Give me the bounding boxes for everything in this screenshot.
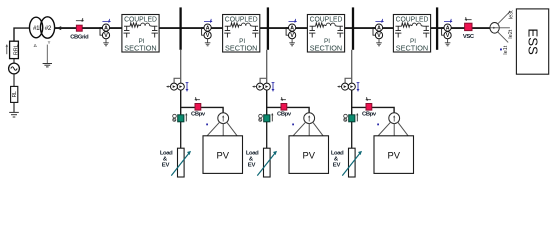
wire CBGrid to meter M1 xyxy=(82,27,122,29)
transformer T1 winding #1 (delta) xyxy=(29,17,42,48)
svg-text:CBpv: CBpv xyxy=(191,111,206,117)
ammeter feeder 2 xyxy=(263,83,270,90)
wire source riser xyxy=(14,28,30,41)
wire ESS phase 2 xyxy=(499,27,510,29)
svg-text:SECTION: SECTION xyxy=(310,46,342,53)
signal dot 2 xyxy=(292,124,294,126)
bus bar B4 xyxy=(436,7,438,49)
source impedance RRL xyxy=(10,41,20,58)
svg-text:V: V xyxy=(377,33,381,39)
svg-text:PI: PI xyxy=(324,38,330,45)
svg-text:COUPLED: COUPLED xyxy=(310,14,343,23)
svg-text:V: V xyxy=(206,33,210,39)
svg-text:ESS: ESS xyxy=(526,28,541,55)
wire to Load & EV 1 xyxy=(180,122,182,148)
svg-text:CBpv: CBpv xyxy=(362,111,377,117)
multimeter M1 (ammeter A over voltmeter V) xyxy=(100,24,110,46)
current flow arrow at M4 xyxy=(375,19,383,23)
multimeter M2 (ammeter A over voltmeter V) xyxy=(202,24,212,46)
variable load box Load & EV 2 xyxy=(264,148,271,177)
variable-load arrow 2 xyxy=(257,151,277,176)
svg-text:Y: Y xyxy=(48,40,51,45)
wire source to RL xyxy=(13,74,15,87)
breaker CBpv3 xyxy=(362,104,377,118)
ammeter feeder 1 xyxy=(177,83,184,90)
wire meter loop feeder 3 xyxy=(345,78,352,83)
svg-text:SECTION: SECTION xyxy=(396,46,428,53)
signal dot 1 xyxy=(206,124,208,126)
svg-text:Δ: Δ xyxy=(34,43,37,48)
wire meter loop feeder 1 xyxy=(174,78,181,83)
ground source xyxy=(9,112,19,117)
multimeter M5 (ammeter A over voltmeter V) xyxy=(442,24,452,46)
transmission line block TL1: COUPLED PI SECTION xyxy=(122,14,159,52)
breaker CBGrid xyxy=(70,25,89,40)
svg-text:A: A xyxy=(446,25,450,31)
svg-text:COUPLED: COUPLED xyxy=(225,14,258,23)
voltmeter feeder 2 xyxy=(257,83,264,90)
label Load & EV 1 xyxy=(160,151,173,169)
multimeter M3 (ammeter A over voltmeter V) xyxy=(286,24,296,46)
current arrow at CBpv3 xyxy=(366,97,371,101)
bus bar B2 xyxy=(267,7,269,49)
wire transformer neutral to ground xyxy=(46,45,48,64)
svg-text:SECTION: SECTION xyxy=(124,46,156,53)
current flow arrow at M5 xyxy=(444,19,452,23)
power flow arrowhead toward transformer xyxy=(56,26,61,30)
wire PV branch 3 xyxy=(352,107,394,113)
transformer T1 winding #2 (wye) xyxy=(40,17,54,45)
wire PI3 to PI4 xyxy=(345,27,394,29)
svg-text:A: A xyxy=(104,25,108,31)
wire feeder 1 from bus xyxy=(180,50,182,84)
wire PI1 to PI2 xyxy=(159,27,223,29)
svg-text:EV: EV xyxy=(333,162,341,168)
breaker CBpv2 xyxy=(277,104,292,118)
load breaker BRKload3 (closed, green) xyxy=(349,115,355,122)
three-phase fan wires to PV box 2 xyxy=(293,122,323,136)
svg-text:V: V xyxy=(104,33,108,39)
current arrow at CBpv2 xyxy=(281,97,286,101)
svg-text:PI: PI xyxy=(138,38,144,45)
variable-load arrow 3 xyxy=(342,151,362,176)
ESS battery box xyxy=(516,9,548,74)
arrow at load breaker 2 xyxy=(271,113,273,121)
PV array box 1 xyxy=(203,136,243,174)
PV inverter node 3 xyxy=(389,113,400,124)
svg-text:A: A xyxy=(377,25,381,31)
grounding impedance RL xyxy=(11,86,18,102)
transmission line block TL2: COUPLED PI SECTION xyxy=(223,14,260,52)
svg-text:Ie3t: Ie3t xyxy=(508,10,514,19)
arrow at load breaker 1 xyxy=(185,113,187,121)
svg-text:COUPLED: COUPLED xyxy=(396,14,429,23)
wire feeder 2 down to branch node xyxy=(266,90,268,115)
breaker control dial 2 xyxy=(259,114,263,121)
AC source V1 xyxy=(9,63,20,74)
svg-text:PV: PV xyxy=(387,150,400,161)
wire PI4 to ESS xyxy=(431,27,490,29)
measurement arrow into feeder 3 meters xyxy=(338,85,342,87)
wire meter loop feeder 2 xyxy=(260,78,267,83)
signal dot ESS xyxy=(500,49,502,51)
svg-text:Ie1t: Ie1t xyxy=(503,45,509,54)
breaker CBpv1 xyxy=(191,104,206,118)
wire to Load & EV 2 xyxy=(266,122,268,148)
PV inverter node 2 xyxy=(304,113,315,124)
variable-load arrow 1 xyxy=(171,151,191,176)
wire feeder 2 from bus xyxy=(266,50,268,84)
transmission line block TL4: COUPLED PI SECTION xyxy=(393,14,430,52)
svg-text:A: A xyxy=(290,25,294,31)
power flow arrow feeder 1 xyxy=(186,83,189,92)
current arrow at CBGrid xyxy=(76,18,84,22)
signal dot 3 xyxy=(377,124,379,126)
load breaker BRKload1 (closed, green) xyxy=(178,115,184,122)
voltmeter feeder 3 xyxy=(342,83,349,90)
svg-text:#1: #1 xyxy=(33,25,40,32)
svg-text:PI: PI xyxy=(410,38,416,45)
breaker VSC xyxy=(463,23,475,40)
measurement arrow into feeder 2 meters xyxy=(253,85,257,87)
current flow arrow at M1 xyxy=(102,19,110,23)
power flow arrow feeder 3 xyxy=(357,83,360,92)
wire ESS phase 1 xyxy=(498,32,509,43)
transmission line block TL3: COUPLED PI SECTION xyxy=(307,14,344,52)
ground transformer neutral xyxy=(43,64,52,67)
wire PV branch 2 xyxy=(267,107,309,113)
label Load & EV 2 xyxy=(246,151,259,169)
svg-text:EV: EV xyxy=(248,162,256,168)
arrow at load breaker 3 xyxy=(356,113,358,121)
wire transformer to CBGrid xyxy=(54,27,79,29)
current arrow at VSC xyxy=(465,17,472,21)
svg-text:V: V xyxy=(446,33,450,39)
breaker control dial 3 xyxy=(344,114,348,121)
load breaker BRKload2 (closed, green) xyxy=(264,115,270,122)
current flow arrow at M2 xyxy=(204,19,212,23)
wire RL to ground xyxy=(13,102,15,112)
wire feeder 1 down to branch node xyxy=(180,90,182,115)
bus bar B3 xyxy=(352,7,354,49)
current arrow at CBpv1 xyxy=(195,97,200,101)
measurement arrow into feeder 1 meters xyxy=(167,85,171,87)
svg-text:VSC: VSC xyxy=(463,34,475,40)
PV array box 3 xyxy=(374,136,414,174)
svg-text:A: A xyxy=(206,25,210,31)
voltmeter feeder 1 xyxy=(171,83,178,90)
breaker control dial 1 xyxy=(173,114,177,121)
svg-text:CBGrid: CBGrid xyxy=(70,34,89,40)
svg-text:COUPLED: COUPLED xyxy=(124,14,157,23)
arrow beside RRL xyxy=(5,45,8,55)
PV inverter node 1 xyxy=(218,113,229,124)
variable load box Load & EV 3 xyxy=(349,148,356,177)
wire feeder 3 down to branch node xyxy=(351,90,353,115)
wire feeder 3 from bus xyxy=(351,50,353,84)
multimeter M4 (ammeter A over voltmeter V) xyxy=(373,24,383,46)
svg-text:PI: PI xyxy=(239,38,245,45)
bus bar B1 xyxy=(179,7,181,49)
power flow arrow feeder 2 xyxy=(272,83,275,92)
label Load & EV 3 xyxy=(331,151,344,169)
current flow arrow at M3 xyxy=(289,19,297,23)
ESS interface node xyxy=(490,23,499,34)
svg-text:SECTION: SECTION xyxy=(225,46,257,53)
wire PV branch 1 xyxy=(181,107,223,113)
svg-text:V: V xyxy=(290,33,294,39)
PV array box 2 xyxy=(289,136,329,174)
svg-text:CBpv: CBpv xyxy=(277,111,292,117)
wire ESS phase 3 xyxy=(498,12,510,24)
wire RRL to source xyxy=(13,59,15,64)
wire PI2 to PI3 xyxy=(260,27,308,29)
three-phase fan wires to PV box 3 xyxy=(378,122,408,136)
svg-text:PV: PV xyxy=(302,150,315,161)
ammeter feeder 3 xyxy=(348,83,355,90)
wire to Load & EV 3 xyxy=(351,122,353,148)
three-phase fan wires to PV box 1 xyxy=(207,122,237,136)
variable load box Load & EV 1 xyxy=(178,148,185,177)
svg-text:RL: RL xyxy=(12,91,18,97)
svg-text:#2: #2 xyxy=(45,25,52,32)
svg-text:EV: EV xyxy=(162,162,170,168)
svg-text:Ie2t: Ie2t xyxy=(508,29,514,38)
svg-text:PV: PV xyxy=(216,150,229,161)
svg-text:RRL: RRL xyxy=(14,45,20,56)
